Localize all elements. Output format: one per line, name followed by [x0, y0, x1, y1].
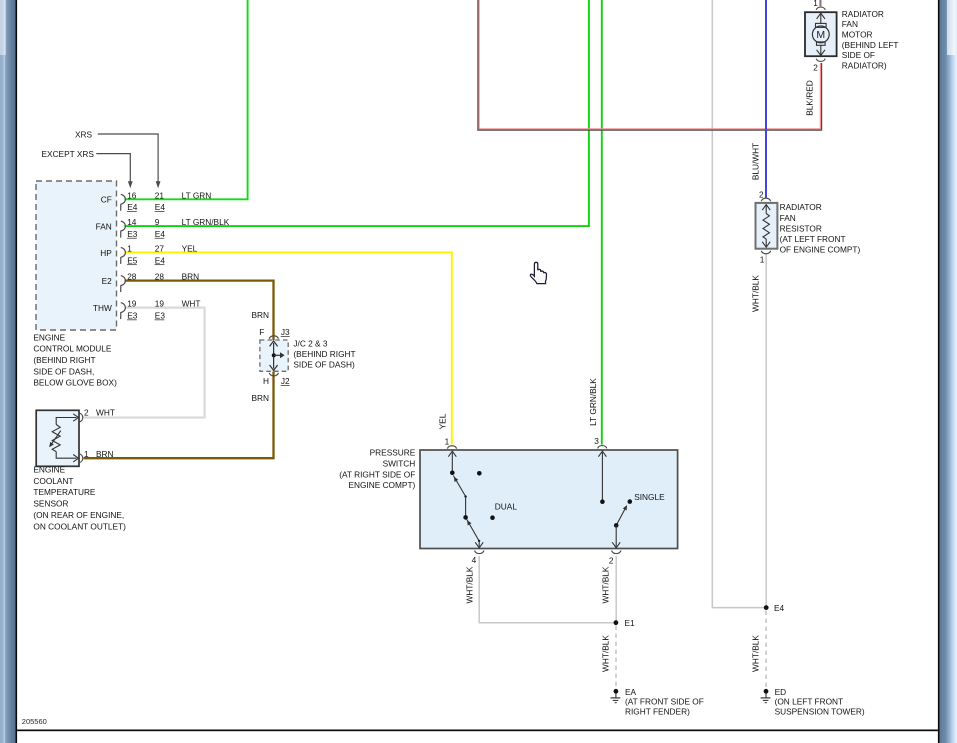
svg-text:(AT FRONT SIDE OF: (AT FRONT SIDE OF — [625, 696, 704, 706]
ECM pin E2 connector — [121, 276, 126, 293]
svg-text:LT GRN: LT GRN — [182, 190, 212, 200]
wire BLU/WHT from top to radiator fan resistor pin 2 — [765, 0, 767, 198]
radiator fan resistor R1 box — [756, 203, 778, 249]
pressure switch pin 1 arc — [447, 446, 456, 449]
label XRS with arrow to pin 21 — [75, 129, 161, 188]
wire BRN from J/C 2&3 pin H to coolant temp sensor pin 1 — [84, 372, 274, 459]
svg-text:28: 28 — [155, 272, 165, 282]
ECM pin FAN connector — [121, 221, 126, 238]
switch dual lead to pin 4 with down arrow — [475, 541, 483, 548]
ground EA — [611, 689, 621, 703]
sensor internal wiring to pin 2 — [56, 414, 78, 425]
svg-text:LT GRN/BLK: LT GRN/BLK — [588, 378, 598, 426]
wire LT GRN/BLK from top to pressure switch pin 3 — [601, 0, 603, 445]
svg-text:(AT RIGHT SIDE OF: (AT RIGHT SIDE OF — [339, 469, 415, 479]
svg-text:1: 1 — [127, 243, 132, 253]
motor internal top arrow — [817, 13, 825, 24]
svg-text:E4: E4 — [127, 202, 138, 212]
svg-text:TEMPERATURE: TEMPERATURE — [33, 487, 96, 497]
switch dual lower fixed contact dot — [490, 515, 495, 520]
switch dual upper fixed contact dot — [477, 471, 482, 476]
connector ids row HP — [127, 255, 165, 265]
ECM pin THW connector — [121, 303, 126, 320]
svg-text:RIGHT FENDER): RIGHT FENDER) — [625, 707, 690, 717]
svg-text:3: 3 — [594, 436, 599, 446]
svg-text:BRN: BRN — [252, 393, 270, 403]
svg-text:CF: CF — [101, 195, 112, 205]
resistor zigzag — [763, 214, 769, 240]
svg-text:J/C 2 & 3: J/C 2 & 3 — [293, 339, 328, 349]
switch dual contact dot — [450, 471, 455, 476]
ground ED — [761, 689, 771, 703]
svg-text:YEL: YEL — [182, 243, 198, 253]
svg-text:BRN: BRN — [182, 272, 200, 282]
ECM U1 dashed box — [36, 181, 117, 330]
svg-text:ON COOLANT OUTLET): ON COOLANT OUTLET) — [33, 521, 126, 531]
motor symbol — [812, 23, 829, 45]
svg-text:WHT: WHT — [182, 299, 201, 309]
switch single pivot dot — [614, 523, 619, 528]
svg-text:4: 4 — [472, 555, 477, 565]
wire WHT/BLK from top to node E4 — [712, 0, 764, 608]
radiator fan resistor caption — [780, 202, 861, 254]
pressure switch caption — [339, 447, 416, 490]
sensor pin 2 labels — [84, 408, 115, 418]
svg-text:ENGINE: ENGINE — [33, 332, 65, 342]
switch single fixed contact dot — [628, 499, 633, 504]
svg-text:ENGINE COMPT): ENGINE COMPT) — [348, 480, 415, 490]
switch single lead to pin 2 with down arrow — [612, 525, 620, 547]
svg-text:J3: J3 — [281, 327, 290, 337]
switch dual side pin 1 lead with arrow — [448, 451, 456, 473]
svg-text:WHT: WHT — [96, 408, 115, 418]
radiator fan motor pin 2 arc — [816, 59, 825, 62]
mouse hand cursor — [530, 262, 546, 283]
radiator fan resistor pin 1 arc — [761, 251, 770, 254]
svg-text:BLK/RED: BLK/RED — [805, 80, 815, 116]
pin numbers row E2 — [127, 272, 199, 282]
svg-text:J2: J2 — [281, 376, 290, 386]
svg-text:WHT/BLK: WHT/BLK — [600, 635, 610, 672]
switch dual blade 1 with arrowhead — [453, 476, 465, 497]
svg-text:WHT/BLK: WHT/BLK — [751, 275, 761, 312]
svg-text:YEL: YEL — [437, 413, 447, 429]
svg-text:(ON LEFT FRONT: (ON LEFT FRONT — [775, 696, 844, 706]
svg-text:RADIATOR: RADIATOR — [842, 9, 884, 19]
ECM caption — [33, 332, 117, 387]
dashed wire from node E1 to ground EA — [615, 626, 617, 689]
svg-text:OF ENGINE COMPT): OF ENGINE COMPT) — [780, 245, 861, 255]
svg-text:BRN: BRN — [96, 449, 114, 459]
svg-text:SIDE OF DASH): SIDE OF DASH) — [293, 359, 355, 369]
wire LT GRN/BLK from ECM pin FAN up to top — [125, 0, 589, 226]
sensor variable arrow — [49, 431, 61, 448]
svg-text:(ON REAR OF ENGINE,: (ON REAR OF ENGINE, — [33, 510, 124, 520]
pressure switch pin 2 arc — [612, 551, 621, 554]
svg-text:XRS: XRS — [75, 129, 93, 139]
switch dual middle link — [465, 496, 467, 517]
sensor caption — [33, 464, 126, 531]
svg-text:E4: E4 — [155, 255, 166, 265]
svg-text:WHT/BLK: WHT/BLK — [751, 635, 761, 672]
switch single contact dot — [600, 499, 605, 504]
switch dual blade2 end dot — [478, 540, 480, 542]
node E1 — [614, 618, 636, 628]
J/C 2&3 connector J3 top arc — [269, 336, 278, 339]
svg-text:MOTOR: MOTOR — [842, 30, 873, 40]
wire BRN from ECM pin E2 to J/C 2&3 pin F — [125, 281, 274, 341]
label EXCEPT XRS with arrow to pin 16 — [42, 149, 133, 188]
wire YEL from ECM pin HP to pressure switch pin 1 — [125, 252, 452, 444]
svg-text:1: 1 — [445, 436, 450, 446]
connector ids row THW — [127, 311, 165, 321]
wire WHT/BLK from pressure switch pin 2 to node E1 — [615, 556, 617, 623]
switch single blade with arrowhead — [616, 505, 627, 525]
radiator fan motor M1 box — [805, 12, 837, 56]
svg-text:E4: E4 — [155, 229, 166, 239]
bottom border of diagram pane — [17, 730, 938, 732]
svg-text:SINGLE: SINGLE — [634, 492, 665, 502]
pin numbers row FAN — [127, 217, 230, 227]
left scrollbar — [0, 0, 17, 743]
svg-text:CONTROL MODULE: CONTROL MODULE — [33, 344, 112, 354]
node E4 — [764, 603, 785, 613]
switch single side pin 3 lead with arrow — [598, 451, 606, 502]
ECM pin CF connector — [121, 194, 126, 211]
svg-text:WHT/BLK: WHT/BLK — [464, 566, 474, 603]
pin numbers row HP — [127, 243, 197, 253]
svg-text:FAN: FAN — [780, 213, 796, 223]
svg-text:ENGINE: ENGINE — [33, 464, 65, 474]
wire WHT from ECM pin THW to coolant temp sensor pin 2 — [84, 308, 205, 418]
sensor pin 1 connector arc — [79, 454, 83, 463]
ground EA labels — [625, 687, 704, 717]
J/C 2&3 internal wire with arrows — [270, 341, 278, 371]
J/C 2&3 caption — [293, 339, 355, 370]
radiator fan motor pin 1 arc — [816, 7, 825, 10]
svg-text:EXCEPT XRS: EXCEPT XRS — [42, 149, 95, 159]
svg-text:SWITCH: SWITCH — [383, 458, 416, 468]
pressure switch pin 4 arc — [475, 551, 484, 554]
svg-text:E3: E3 — [127, 229, 138, 239]
svg-text:14: 14 — [127, 217, 137, 227]
svg-text:EA: EA — [625, 687, 637, 697]
svg-text:SUSPENSION TOWER): SUSPENSION TOWER) — [775, 707, 865, 717]
svg-text:1: 1 — [760, 255, 765, 265]
svg-text:(BEHIND LEFT: (BEHIND LEFT — [842, 40, 899, 50]
connector ids row CF — [127, 202, 165, 212]
wire stub at radiator fan motor pin 1 — [820, 0, 821, 6]
svg-text:1: 1 — [84, 449, 89, 459]
svg-text:E2: E2 — [102, 276, 113, 286]
svg-text:E4: E4 — [774, 603, 785, 613]
svg-text:19: 19 — [127, 299, 137, 309]
wire WHT/BLK from pressure switch pin 4 to node E1 — [479, 556, 613, 623]
svg-text:BRN: BRN — [252, 310, 270, 320]
dashed wire from node E4 to ground ED — [765, 611, 767, 689]
svg-text:M: M — [816, 29, 825, 41]
svg-text:WHT/BLK: WHT/BLK — [600, 566, 610, 603]
svg-text:RADIATOR: RADIATOR — [780, 202, 822, 212]
svg-text:RADIATOR): RADIATOR) — [842, 60, 887, 70]
svg-text:FAN: FAN — [96, 222, 112, 232]
motor internal bottom arrow — [817, 45, 825, 55]
J/C 2&3 dashed box — [260, 340, 288, 371]
svg-text:ED: ED — [775, 687, 787, 697]
svg-text:FAN: FAN — [842, 19, 858, 29]
svg-text:E1: E1 — [625, 618, 636, 628]
svg-text:PRESSURE: PRESSURE — [370, 447, 416, 457]
switch dual blade 2 with arrowhead — [467, 519, 479, 541]
svg-text:SENSOR: SENSOR — [33, 499, 68, 509]
J/C 2&3 bottom arc — [269, 373, 278, 376]
svg-text:COOLANT: COOLANT — [33, 476, 73, 486]
wire WHT/BLK from radiator fan resistor pin 1 to node E4 — [765, 254, 767, 607]
pressure switch S1 box — [420, 450, 678, 549]
pin numbers row THW — [127, 299, 200, 309]
svg-text:SIDE OF: SIDE OF — [842, 50, 875, 60]
svg-text:DUAL: DUAL — [495, 501, 518, 511]
svg-text:16: 16 — [127, 190, 137, 200]
svg-text:BLU/WHT: BLU/WHT — [751, 143, 761, 180]
svg-text:E4: E4 — [155, 202, 166, 212]
svg-text:LT GRN/BLK: LT GRN/BLK — [182, 217, 230, 227]
connector ids row FAN — [127, 229, 165, 239]
radiator fan resistor pin 2 arc — [761, 198, 770, 201]
radiator fan motor caption — [842, 9, 899, 71]
wire LT GRN from ECM pin CF up to top — [125, 0, 248, 199]
svg-text:2: 2 — [813, 63, 818, 73]
svg-text:THW: THW — [93, 303, 112, 313]
ground ED labels — [775, 687, 865, 717]
svg-text:21: 21 — [155, 190, 165, 200]
svg-text:2: 2 — [609, 555, 614, 565]
sensor pin 2 connector arc — [79, 413, 83, 422]
J/C 2&3 junction dot with right arrow — [272, 352, 285, 358]
svg-text:SIDE OF DASH,: SIDE OF DASH, — [33, 366, 94, 376]
pin numbers row CF — [127, 190, 211, 200]
svg-text:(BEHIND RIGHT: (BEHIND RIGHT — [33, 355, 95, 365]
svg-text:E3: E3 — [155, 311, 166, 321]
svg-text:(BEHIND RIGHT: (BEHIND RIGHT — [293, 349, 355, 359]
J/C 2&3 pin J3 label — [281, 327, 290, 337]
svg-text:2: 2 — [84, 408, 89, 418]
svg-text:1: 1 — [813, 0, 818, 8]
right scrollbar — [938, 0, 957, 743]
svg-text:27: 27 — [155, 243, 165, 253]
sensor thermistor zigzag — [52, 425, 60, 452]
switch dual middle dot — [463, 515, 468, 520]
sensor pin 1 labels — [84, 449, 114, 459]
svg-text:RESISTOR: RESISTOR — [780, 223, 822, 233]
engine coolant temperature sensor box — [36, 410, 79, 466]
svg-text:2: 2 — [759, 189, 764, 199]
svg-text:F: F — [259, 327, 264, 337]
svg-text:H: H — [263, 376, 269, 386]
svg-text:19: 19 — [155, 299, 165, 309]
svg-text:E5: E5 — [127, 255, 138, 265]
ECM pin HP connector — [121, 247, 126, 264]
pressure switch pin 3 arc — [598, 446, 607, 449]
svg-text:9: 9 — [155, 217, 160, 227]
resistor internal top arrow — [762, 205, 770, 214]
wire BLK/RED from top to radiator fan motor pin 2 — [478, 0, 822, 130]
sensor internal wiring to pin 1 — [56, 452, 78, 462]
svg-text:E3: E3 — [127, 311, 138, 321]
switch dual blade1 end dot — [464, 495, 466, 497]
J/C 2&3 pin J2 label — [281, 376, 290, 386]
svg-text:(AT LEFT FRONT: (AT LEFT FRONT — [780, 234, 846, 244]
svg-text:205560: 205560 — [22, 717, 47, 726]
resistor internal bottom arrow — [762, 239, 770, 247]
svg-text:BELOW GLOVE BOX): BELOW GLOVE BOX) — [33, 378, 117, 388]
svg-text:28: 28 — [127, 272, 137, 282]
svg-text:HP: HP — [100, 248, 112, 258]
